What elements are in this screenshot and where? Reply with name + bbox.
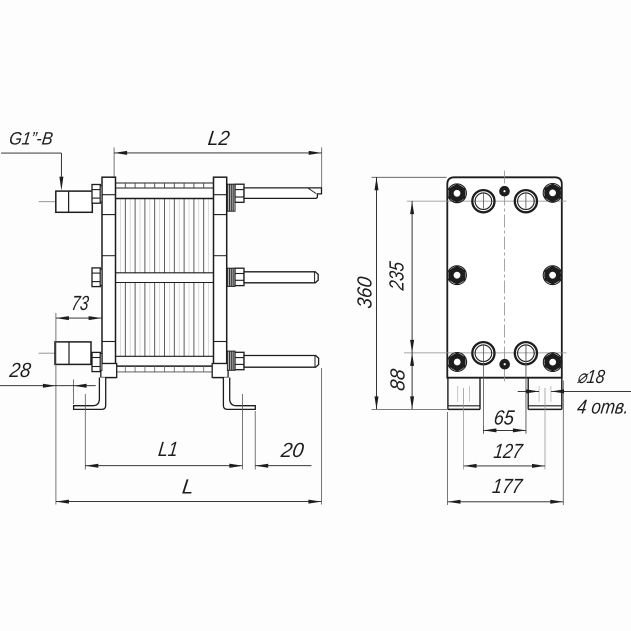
svg-text:177: 177 (491, 475, 525, 498)
svg-text:20: 20 (279, 439, 306, 462)
svg-text:4 отв.: 4 отв. (576, 396, 630, 418)
svg-text:⌀18: ⌀18 (576, 367, 606, 388)
svg-text:65: 65 (493, 406, 516, 429)
svg-text:L2: L2 (207, 127, 232, 150)
svg-text:73: 73 (70, 292, 90, 315)
svg-text:28: 28 (7, 359, 32, 382)
svg-text:360: 360 (353, 275, 376, 310)
svg-text:G1”-B: G1”-B (8, 129, 54, 149)
svg-text:127: 127 (492, 440, 525, 463)
svg-text:88: 88 (387, 367, 410, 392)
svg-text:L1: L1 (157, 438, 179, 461)
svg-text:235: 235 (386, 260, 409, 292)
